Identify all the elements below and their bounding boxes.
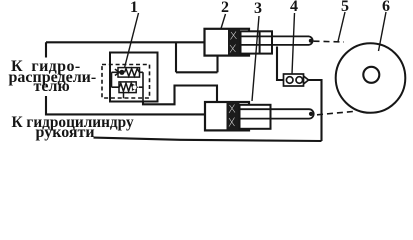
wire from valve block lower port stair to bottom cylinder top: [143, 86, 217, 105]
check valve V2 (bottom, spring left ball right): [119, 82, 139, 93]
leader line 2: [221, 14, 226, 29]
label 6: [382, 0, 390, 15]
label 5: [341, 0, 349, 15]
valve block dashed enclosure: [102, 65, 150, 99]
cable dashed line top (rod to drum): [314, 40, 345, 43]
wire bridge to top cylinder bottom stub: [176, 71, 218, 73]
bottom cylinder piston (dark): [227, 102, 240, 130]
top cylinder middle tube (white fill hides barrel edge): [241, 31, 273, 53]
left bus joining valve inlets: [112, 72, 120, 87]
wire from pulley block down and left to arm-cylinder line W3: [94, 80, 322, 141]
leader line 3: [252, 16, 259, 101]
text: to arm hydraulic cylinder: [12, 115, 134, 130]
right bus joining valve outlets: [139, 72, 143, 101]
pulley block 4: link up to top rod: [277, 47, 284, 81]
wire to arm cylinder: vertical x46 (interrupted by text) and bottom horizontal W2: [46, 42, 205, 114]
top cylinder rod: [241, 36, 313, 45]
top hydraulic cylinder 2: barrel: [205, 29, 250, 56]
leader line 6: [379, 12, 387, 51]
drum 6 outer circle: [336, 43, 406, 113]
check valve V1 (top, ball left spring right): [115, 68, 140, 78]
bottom hydraulic cylinder: barrel: [205, 102, 249, 130]
wire W1 to distributor (top line): [46, 41, 205, 43]
wire stub into top cylinder bottom: [216, 56, 218, 73]
valve block solid box: [110, 53, 158, 102]
top cylinder tube divider: [259, 31, 261, 53]
label 2: [221, 0, 229, 16]
label 3: [254, 1, 262, 17]
text: to hydraulic distributor: [11, 59, 81, 75]
leader line 4: [292, 13, 295, 74]
drum 6 hub circle: [363, 67, 379, 83]
leader line 5: [338, 12, 345, 42]
top cylinder piston (dark): [228, 29, 240, 56]
leader line 1: [125, 13, 139, 67]
bottom cylinder rod: [240, 109, 314, 118]
label 4: [290, 0, 298, 15]
wire riser from W1 down to bridge: [175, 42, 177, 72]
bottom cylinder middle tube (white fill hides barrel edge): [240, 105, 271, 129]
wire stub from bottom valve to dashed boundary: [123, 93, 125, 99]
label 1: [130, 0, 138, 16]
pulley block 4 body: [284, 74, 309, 86]
cable dashed line bottom (rod to drum): [317, 112, 353, 115]
